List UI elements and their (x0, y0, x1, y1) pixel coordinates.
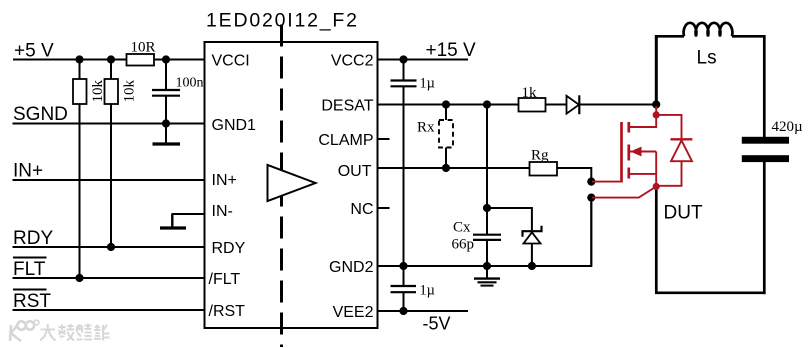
node kelvin source junction (587, 194, 595, 202)
svg-text:Rx: Rx (417, 120, 435, 136)
wire IN- stub (172, 213, 205, 215)
wire drain vertical (thick) (655, 35, 658, 105)
node junction Rx-OUT (442, 164, 450, 172)
capacitor Cx 66p branch (452, 105, 502, 267)
node junction VEE2-1u (399, 307, 407, 315)
svg-text:/FLT: /FLT (209, 271, 241, 288)
svg-text:CLAMP: CLAMP (318, 132, 373, 149)
svg-text:RDY: RDY (13, 228, 53, 249)
svg-text:420µ: 420µ (772, 119, 804, 135)
diode body (red freewheel) (656, 115, 692, 186)
node red drain dot (653, 111, 660, 118)
svg-text:Cx: Cx (453, 220, 471, 236)
svg-text:66p: 66p (452, 237, 475, 253)
node RST label (active low) (13, 290, 51, 312)
svg-text:DUT: DUT (664, 203, 703, 224)
node junction DESAT-Rx (442, 100, 450, 108)
wire SGND (13, 123, 205, 125)
wire from 10k#2 down to RDY line (110, 104, 112, 247)
node junction 100n on SGND (162, 119, 170, 127)
svg-text:GND2: GND2 (329, 259, 374, 276)
wire gate return vertical (590, 198, 592, 266)
node junction drain-DESAT (652, 100, 660, 108)
wire /FLT (13, 277, 205, 279)
node junction on +5V at x=79.5 (75, 55, 83, 63)
wire DESAT (378, 104, 519, 106)
svg-text:RDY: RDY (212, 240, 246, 257)
wire /RST (13, 309, 205, 311)
node junction zener-GND2 (528, 262, 536, 270)
resistor Rx (optional, dashed) (417, 105, 453, 169)
node FLT label (active low) (13, 258, 47, 280)
svg-text:+15 V: +15 V (426, 40, 477, 61)
capacitor 100n (152, 60, 204, 124)
svg-text:/RST: /RST (209, 303, 246, 320)
svg-text:10k: 10k (121, 80, 137, 103)
node junction GND2-1u (399, 262, 407, 270)
wire source vertical down (thick) (655, 187, 658, 293)
svg-text:VCC2: VCC2 (331, 52, 374, 69)
svg-text:IN+: IN+ (212, 172, 237, 189)
resistor 10R (127, 40, 156, 66)
svg-text:IN-: IN- (212, 203, 233, 220)
node junction Cx top / zener branch (483, 204, 491, 212)
resistor 10k (second, to RDY) (105, 60, 138, 105)
kelvin source wire (592, 187, 656, 198)
wire Rg to gate corner (557, 168, 591, 182)
wire right vertical bottom (thick) (763, 162, 766, 294)
svg-text:VEE2: VEE2 (333, 304, 374, 321)
svg-text:SGND: SGND (13, 104, 68, 125)
isolation barrier dashed line (280, 25, 283, 348)
svg-text:Rg: Rg (531, 148, 549, 164)
wire OUT (378, 167, 530, 169)
op-amp buffer triangle inside U1 (268, 165, 316, 201)
watermark text 大数跨境 (40, 324, 110, 341)
wire top rail left (thick) (655, 35, 684, 38)
svg-text:DESAT: DESAT (321, 97, 373, 114)
wire 1k to diode (546, 104, 567, 106)
svg-text:Ls: Ls (697, 48, 717, 69)
node junction VCC2 (399, 55, 407, 63)
node junction on +5V at x=111 (107, 55, 115, 63)
ground symbol GND2 (474, 266, 500, 286)
svg-text:10k: 10k (90, 80, 106, 103)
node junction DESAT-Cx (483, 100, 491, 108)
wire bottom rail (thick) (655, 291, 766, 294)
wire CLAMP stub (378, 138, 390, 140)
svg-text:10R: 10R (131, 40, 156, 56)
wire +5V rail right segment to VCCI pin (154, 59, 205, 61)
svg-text:+5 V: +5 V (14, 41, 54, 62)
svg-text:IN+: IN+ (13, 161, 43, 182)
inductor Ls (684, 23, 733, 36)
body lead (630, 151, 656, 153)
wire from 10k#1 down to /FLT line (79, 104, 81, 278)
gate bar (620, 122, 623, 183)
transistor DUT (red MOSFET) (592, 106, 656, 198)
svg-text:OUT: OUT (338, 163, 372, 180)
svg-text:FLT: FLT (13, 259, 46, 280)
wire IN+ (13, 179, 205, 181)
source lead (630, 173, 656, 175)
resistor 1k (519, 85, 546, 112)
IC U1 gate driver box (205, 42, 378, 328)
svg-text:1k: 1k (522, 85, 538, 101)
wire +5V rail left segment (13, 59, 127, 61)
svg-text:1µ: 1µ (420, 76, 435, 92)
drain lead (630, 115, 657, 127)
node junction on /FLT (75, 274, 83, 282)
node red source dot (653, 183, 660, 190)
wire VEE2 (378, 310, 469, 312)
wire VCC2 to +15V (378, 59, 469, 61)
node gate junction (587, 178, 595, 186)
svg-text:RST: RST (13, 291, 51, 312)
ground bar on IN- (tie low) (160, 214, 186, 228)
diode D1 (DESAT sense) (567, 95, 580, 114)
wire GND2 and up to kelvin source (378, 198, 592, 266)
watermark logo (10, 320, 39, 341)
svg-text:GND1: GND1 (212, 117, 257, 134)
svg-text:VCCI: VCCI (212, 52, 250, 69)
resistor 10k (first, to /FLT) (73, 60, 106, 105)
source vertical (655, 152, 657, 187)
zener diode DZ branch (487, 208, 542, 266)
capacitor 420u DC link (742, 119, 803, 162)
svg-text:NC: NC (350, 201, 373, 218)
wire RDY (13, 246, 205, 248)
wire diode to DUT drain node (580, 104, 656, 106)
capacitor C2 1u (GND2-VEE2) (391, 266, 435, 311)
node junction on RDY (107, 243, 115, 251)
node junction GND2-Cx (483, 262, 491, 270)
ground bar below SGND (153, 124, 181, 145)
wire NC stub (378, 207, 390, 209)
body arrow (630, 147, 641, 157)
svg-text:100n: 100n (176, 76, 204, 91)
channel bar segments (627, 122, 630, 133)
gate wire (592, 181, 620, 183)
svg-text:1µ: 1µ (420, 283, 435, 299)
red drain link (655, 106, 657, 115)
wire right vertical top (thick) (763, 36, 766, 137)
wire top rail right (thick) (732, 35, 766, 38)
svg-text:-5V: -5V (423, 314, 451, 334)
node junction on +5V at x=166 (162, 55, 170, 63)
resistor Rg (530, 148, 558, 176)
capacitor C1 1u (VCC2-GND2) (391, 60, 435, 267)
